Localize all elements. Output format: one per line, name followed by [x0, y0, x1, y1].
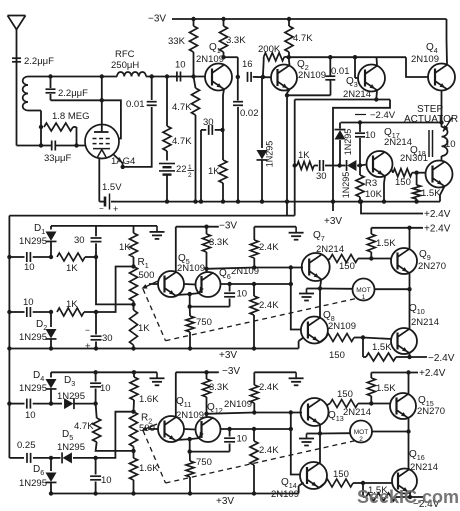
label 1.5K ch2c: [368, 485, 388, 496]
svg-text:750: 750: [196, 457, 212, 468]
capacitor 16: [248, 72, 252, 82]
label 10 ch2a: [100, 383, 111, 394]
svg-text:500: 500: [139, 270, 155, 281]
node Q3 base tap: [353, 55, 357, 59]
wire ch1 bottom rail: [9, 348, 298, 350]
node in1 left: [7, 255, 11, 259]
mech coupling lower: [143, 431, 356, 484]
capacitor 33uuF: [52, 141, 85, 151]
node +2.4V tap: [359, 199, 363, 203]
wire R2 wiper to Q11: [149, 428, 158, 430]
battery 22.5V: [159, 151, 175, 202]
node heater-audio: [121, 165, 125, 169]
svg-text:+: +: [113, 204, 118, 214]
svg-text:1N295: 1N295: [19, 236, 47, 247]
svg-text:2.4K: 2.4K: [259, 382, 279, 393]
step actuator arrow: [443, 117, 453, 132]
svg-text:ACTUATOR: ACTUATOR: [404, 114, 458, 125]
transistor Q5 2N109: [158, 271, 184, 297]
capacitor 0.02: [233, 77, 243, 202]
node Q13 base node: [252, 410, 256, 414]
mech coupling upper: [143, 289, 356, 341]
svg-text:1N295: 1N295: [57, 391, 85, 402]
svg-text:−: −: [85, 325, 90, 335]
svg-text:3.3K: 3.3K: [209, 382, 229, 393]
node cap10 ch1 top: [227, 282, 231, 286]
svg-text:2N270: 2N270: [417, 406, 445, 417]
node -3V 4.7K: [287, 17, 291, 21]
svg-text:1.5K: 1.5K: [376, 383, 396, 394]
label 30 Q1e: [203, 117, 214, 128]
node 4.7Kb top: [165, 74, 169, 78]
label D2: [36, 319, 47, 332]
wire out to MOT: [320, 288, 353, 290]
svg-text:−3V: −3V: [222, 366, 240, 377]
label Q17 type: [384, 137, 412, 148]
wire Q13 emitter down: [319, 424, 321, 433]
diode 1N295 step series: [340, 160, 360, 171]
label 4.7K b: [172, 136, 192, 147]
node MOT2 right: [406, 429, 410, 433]
wire heater left down: [98, 158, 100, 201]
wire Q4 collector: [446, 19, 449, 65]
transistor Q16 2N214: [392, 469, 417, 494]
node cap16 in: [236, 75, 240, 79]
label Q11: [176, 396, 191, 409]
inductor RFC 250uH: [117, 72, 146, 77]
label 10 ch2b: [101, 475, 112, 486]
label Q13 type: [343, 407, 371, 418]
tube V1 heater: [98, 150, 107, 158]
inductor step actuator: [442, 123, 448, 157]
wire 2.4K3 top: [253, 372, 255, 377]
node 22.5 rail: [165, 199, 169, 203]
resistor 1.5K step: [413, 173, 421, 202]
label 1.8 MEG: [52, 111, 90, 122]
node Q1 collector: [221, 55, 225, 59]
node coil-meg: [39, 125, 43, 129]
label 2.2uuF antenna: [24, 56, 54, 67]
capacitor 2.2uuF antenna: [12, 58, 21, 62]
wire Q5-Q6 link: [184, 283, 196, 286]
svg-text:RFC: RFC: [115, 49, 135, 60]
wire Q2e down: [286, 95, 288, 201]
svg-text:4.7K: 4.7K: [74, 421, 94, 432]
resistor 4.7K b: [163, 77, 171, 152]
svg-text:2N214: 2N214: [316, 244, 344, 255]
svg-text:2N214: 2N214: [384, 137, 412, 148]
label 0.01 a: [126, 99, 145, 110]
wire R1 wiper to Q5: [149, 283, 158, 285]
potentiometer R1 500: [130, 267, 138, 311]
svg-text:16: 16: [242, 59, 253, 70]
wire Q2 collector up: [288, 57, 291, 65]
wire Q18 base wire: [417, 172, 426, 174]
wire Q6 coll line: [207, 268, 255, 269]
wire plate to tank: [101, 77, 103, 101]
label D2 type: [19, 332, 47, 343]
transistor Q14 2N109: [300, 462, 327, 489]
wire rfc to base: [146, 76, 205, 78]
svg-text:1N295: 1N295: [19, 383, 47, 394]
label Q9: [419, 249, 431, 262]
wire emitters2 down: [189, 439, 191, 452]
svg-text:30: 30: [102, 333, 113, 344]
svg-text:0.02: 0.02: [240, 108, 259, 119]
wire Q1 emitter: [223, 89, 224, 130]
wire collector bus: [289, 56, 406, 58]
label 750 ch2: [196, 457, 212, 468]
motor MOT1: [353, 279, 375, 302]
resistor 1.5K ch1a: [367, 228, 375, 259]
label 2.4K 1: [259, 242, 279, 253]
svg-text:3.3K: 3.3K: [209, 237, 229, 248]
wire Q6 emitter join: [190, 293, 199, 294]
node Q3 emitter: [374, 97, 378, 101]
wire Q18 emitter: [440, 186, 445, 201]
svg-text:+2.4V: +2.4V: [419, 368, 446, 379]
resistor 3.3K a: [220, 19, 228, 57]
node Q17 base: [358, 163, 362, 167]
node Q10e: [407, 355, 411, 359]
wire -3V ch2: [176, 371, 219, 373]
label Q3 type: [343, 89, 371, 100]
label 16: [242, 59, 253, 70]
resistor 150 ch1: [326, 334, 363, 342]
label 1N295 step shunt: [343, 129, 353, 156]
resistor 750 ch1: [186, 307, 194, 349]
wire Q8 emitter out: [320, 338, 326, 343]
node Q2 base: [261, 75, 265, 79]
label 1K h1: [66, 263, 78, 274]
label 10 step: [365, 130, 376, 141]
node tank-tube: [100, 74, 104, 78]
svg-text:−3V: −3V: [148, 14, 166, 25]
node +2.4V Q15: [406, 370, 410, 374]
node D2 top: [49, 310, 53, 314]
wire tank top: [28, 76, 117, 78]
resistor 4.7K c: [285, 19, 293, 57]
node meg-grid: [74, 143, 78, 147]
node Q8 drop: [289, 265, 293, 269]
node cap10 step top: [358, 120, 362, 124]
label 1K v2: [138, 323, 150, 334]
label Q1 type: [196, 54, 224, 65]
label 1K h2: [66, 299, 78, 310]
label 2.4K 4: [259, 445, 279, 456]
wire staircase: [333, 100, 390, 202]
wire emitters down: [189, 294, 191, 307]
label Q5: [178, 253, 190, 266]
node rail cap30b: [94, 346, 98, 350]
node Q17e rail: [382, 199, 386, 203]
node 0.01b top: [328, 55, 332, 59]
node Q2 emitter: [285, 93, 289, 97]
transistor Q8 2N109: [301, 317, 328, 344]
wire Q6 right line: [221, 283, 291, 285]
label +3V top: [324, 216, 342, 227]
svg-text:10K: 10K: [365, 189, 383, 200]
label 150 ch1: [329, 350, 345, 361]
node Q13 out: [318, 431, 322, 435]
svg-text:+2.4V: +2.4V: [424, 209, 451, 220]
label 10 ch2c: [237, 434, 248, 445]
capacitor 30 ch1b: [91, 312, 102, 349]
inductor L1: [23, 77, 28, 111]
label -2.4V ch2: [413, 499, 440, 510]
ground ch2: [150, 372, 165, 385]
svg-text:4.7K: 4.7K: [172, 102, 192, 113]
node rail 1Kv2: [131, 346, 135, 350]
label -2.4V ch1: [428, 353, 455, 364]
svg-text:2.4K: 2.4K: [259, 445, 279, 456]
wire coil bottom: [28, 111, 41, 146]
node Q15 base node: [369, 401, 373, 405]
label D5 type: [57, 442, 85, 453]
wire Q14 emitter out: [319, 483, 325, 488]
node Q5Q6 emitters: [188, 292, 192, 296]
node 0.02 rail: [236, 199, 240, 203]
node R1 chain mid: [131, 302, 135, 306]
label Q14: [281, 477, 297, 490]
capacitor 10 in3: [9, 399, 51, 409]
node 1.5K step rail: [414, 199, 418, 203]
node rail D2: [49, 346, 53, 350]
svg-text:−2.4V: −2.4V: [428, 353, 455, 364]
label +3V ch1: [219, 350, 237, 361]
label 2.4K 2: [259, 300, 279, 311]
wire Q16 collector: [0, 0, 1, 1]
label R2: [141, 413, 152, 426]
node 1.6K1 top: [132, 370, 136, 374]
svg-text:1.5K: 1.5K: [376, 238, 396, 249]
resistor 4.7K ch2: [93, 404, 134, 451]
node R1 top: [131, 264, 135, 268]
label 30 ch1b: [102, 333, 113, 344]
node Q16 base node: [361, 481, 365, 485]
svg-text:2.2μμF: 2.2μμF: [58, 88, 88, 99]
label 30 step: [316, 171, 327, 182]
node Q16e: [408, 495, 412, 499]
wire MOT2 to right: [372, 431, 409, 433]
svg-text:150: 150: [339, 261, 355, 272]
wire +2.4V ch2: [371, 372, 418, 374]
wire Q13 coll out: [326, 404, 330, 406]
node Q18 base: [414, 171, 418, 175]
svg-text:+3V: +3V: [219, 350, 237, 361]
wire Q14 base drop: [291, 413, 301, 475]
wire servo left edge: [8, 216, 10, 458]
motor MOT2: [350, 421, 372, 444]
node ant-meg-a: [39, 143, 43, 147]
svg-text:1N295: 1N295: [343, 129, 353, 156]
ground ch1: [150, 226, 165, 239]
wire -2.4V ch2: [410, 496, 423, 498]
label 4.7K a: [172, 102, 192, 113]
resistor 1K Q1e: [219, 130, 227, 202]
svg-text:10: 10: [365, 130, 376, 141]
watermark: [357, 487, 459, 507]
label 4.7K ch2: [74, 421, 94, 432]
label -3V ch1: [219, 221, 237, 232]
wire Q17 emitter down: [384, 176, 385, 201]
node rail 750: [188, 346, 192, 350]
label -3V ch2: [222, 366, 240, 377]
svg-text:2: 2: [359, 436, 363, 443]
svg-text:2N109: 2N109: [411, 54, 439, 65]
wire Q17 collector out: [392, 170, 394, 173]
label D3 type: [57, 391, 85, 402]
label 2.4K 3: [259, 382, 279, 393]
label 1.5K step: [421, 188, 441, 199]
wire to Q9 base: [371, 258, 391, 260]
capacitor 10 ch2a: [90, 372, 101, 403]
node R2 top: [131, 410, 135, 414]
resistor 33K: [190, 19, 198, 77]
svg-text:2N109: 2N109: [177, 263, 205, 274]
R2 wiper: [142, 424, 158, 431]
node rail left: [7, 346, 11, 350]
wire grid return: [102, 100, 121, 138]
label 10 in1: [24, 262, 35, 273]
wire Q3 base: [355, 57, 358, 78]
label D6: [33, 464, 44, 477]
svg-text:1K: 1K: [298, 150, 310, 161]
node q6line end: [289, 282, 293, 286]
node rail2 D6: [49, 491, 53, 495]
label Q9 type: [418, 261, 446, 272]
wire base line Q13: [254, 412, 302, 414]
wire Q9-Q10 link: [409, 289, 411, 329]
diode D3 1N295: [51, 398, 96, 409]
diode D1 1N295: [46, 226, 57, 257]
transistor Q7 2N214: [302, 253, 330, 281]
capacitor 0.01 a: [123, 77, 157, 167]
svg-text:−3V: −3V: [219, 221, 237, 232]
svg-text:200K: 200K: [258, 44, 281, 55]
label Q4 type: [411, 54, 439, 65]
label 1K v1: [119, 242, 131, 253]
potentiometer R2 500: [130, 412, 138, 451]
diode D6 1N295: [46, 458, 57, 494]
node Q10 base node: [361, 335, 365, 339]
svg-text:2N109: 2N109: [196, 54, 224, 65]
label Q13: [328, 410, 344, 423]
label 1N295 det: [0, 0, 1, 1]
label +2.4V ch2: [419, 368, 446, 379]
label 30 ch1: [74, 235, 85, 246]
svg-text:10: 10: [445, 139, 456, 150]
label 750 ch1: [196, 317, 212, 328]
node cap10ch2 top: [93, 370, 97, 374]
node rail2 1.6K: [131, 491, 135, 495]
svg-text:1N295: 1N295: [57, 442, 85, 453]
label 10 base Q1: [175, 60, 186, 71]
svg-text:1K: 1K: [66, 263, 78, 274]
node Q1e: [220, 128, 224, 132]
transistor Q6 2N109: [196, 272, 221, 297]
wire Q3 collector: [376, 57, 379, 65]
label Q15: [418, 395, 434, 408]
resistor 1K v1: [130, 226, 138, 267]
resistor 150 ch2b: [330, 400, 371, 408]
svg-text:1K: 1K: [66, 299, 78, 310]
svg-text:1N295: 1N295: [341, 172, 351, 199]
svg-text:1K: 1K: [208, 166, 220, 177]
label 1AG4: [111, 156, 135, 167]
svg-text:−: −: [99, 204, 104, 213]
wire out2 to MOT: [320, 432, 350, 434]
label 200K: [258, 44, 281, 55]
capacitor 30 step: [314, 160, 340, 171]
wire ch2 gnd line: [254, 371, 296, 373]
label 33K: [168, 36, 186, 47]
label 10K: [365, 189, 383, 200]
ground ch2b: [289, 372, 304, 385]
label Q7 type: [316, 244, 344, 255]
label 3.3K a: [226, 35, 246, 46]
label 1.5K ch1b: [372, 342, 392, 353]
wire Q7 coll out: [328, 259, 331, 261]
resistor 2.4K 2: [250, 284, 258, 349]
label 4.7K c: [293, 33, 313, 44]
wire in2 to pot: [96, 267, 134, 313]
resistor 1.6K 2: [130, 451, 138, 494]
node Q7 base node: [252, 265, 256, 269]
svg-text:1K: 1K: [138, 323, 150, 334]
transistor Q4 2N109: [428, 64, 455, 91]
svg-text:2N109: 2N109: [271, 489, 299, 500]
label -2.4V: [355, 110, 396, 121]
wire Q15 emitter: [408, 418, 410, 431]
label Q18: [410, 145, 426, 158]
label +3V ch2: [216, 496, 234, 507]
label Q6: [219, 268, 231, 281]
node rail2 750: [188, 491, 192, 495]
wire Q9 emitter: [409, 273, 411, 289]
node Q9 base node: [369, 256, 373, 260]
label 3.3K ch2: [209, 382, 229, 393]
node in2 left: [7, 310, 11, 314]
label Q1: [209, 42, 221, 55]
wire Q10 collector: [0, 0, 1, 1]
svg-text:4.7K: 4.7K: [293, 33, 313, 44]
capacitor 10 ch1: [190, 284, 235, 307]
ground ch1b: [289, 227, 304, 240]
wire Q15-Q16 link: [408, 432, 410, 470]
transistor Q17 2N214: [367, 151, 393, 177]
transistor Q13 2N214: [301, 398, 329, 426]
label 150 ch2b: [337, 389, 353, 400]
label STEP: [417, 104, 443, 115]
wire base line Q7: [254, 267, 303, 269]
wire +2.4V tap: [361, 202, 423, 214]
svg-text:750: 750: [196, 317, 212, 328]
transistor Q2 2N109: [271, 65, 297, 91]
label 0.25 in4: [17, 440, 36, 451]
label Q2 type: [298, 70, 326, 81]
resistor 1.5K ch2c: [363, 483, 410, 501]
label +2.4V ch1: [424, 224, 451, 235]
label 10 coil: [445, 139, 456, 150]
transistor Q12 2N109: [196, 417, 221, 442]
ground ch2c: [299, 434, 314, 446]
label D4 type: [19, 383, 47, 394]
resistor 1.5K ch2a: [367, 373, 375, 404]
node audio tap: [293, 163, 297, 167]
node -3V 3.3K ch2: [204, 370, 208, 374]
node D3 out: [93, 401, 97, 405]
